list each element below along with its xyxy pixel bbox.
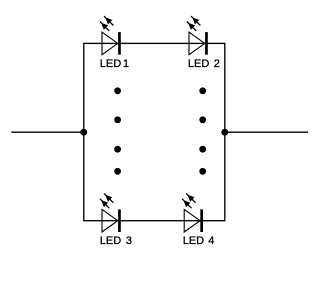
svg-text:LED: LED: [188, 58, 209, 70]
svg-text:LED: LED: [100, 58, 121, 70]
svg-text:LED: LED: [100, 235, 121, 247]
svg-text:4: 4: [208, 235, 214, 247]
svg-text:1: 1: [123, 58, 129, 70]
svg-text:3: 3: [126, 235, 132, 247]
svg-text:LED: LED: [183, 235, 204, 247]
svg-text:2: 2: [214, 58, 220, 70]
